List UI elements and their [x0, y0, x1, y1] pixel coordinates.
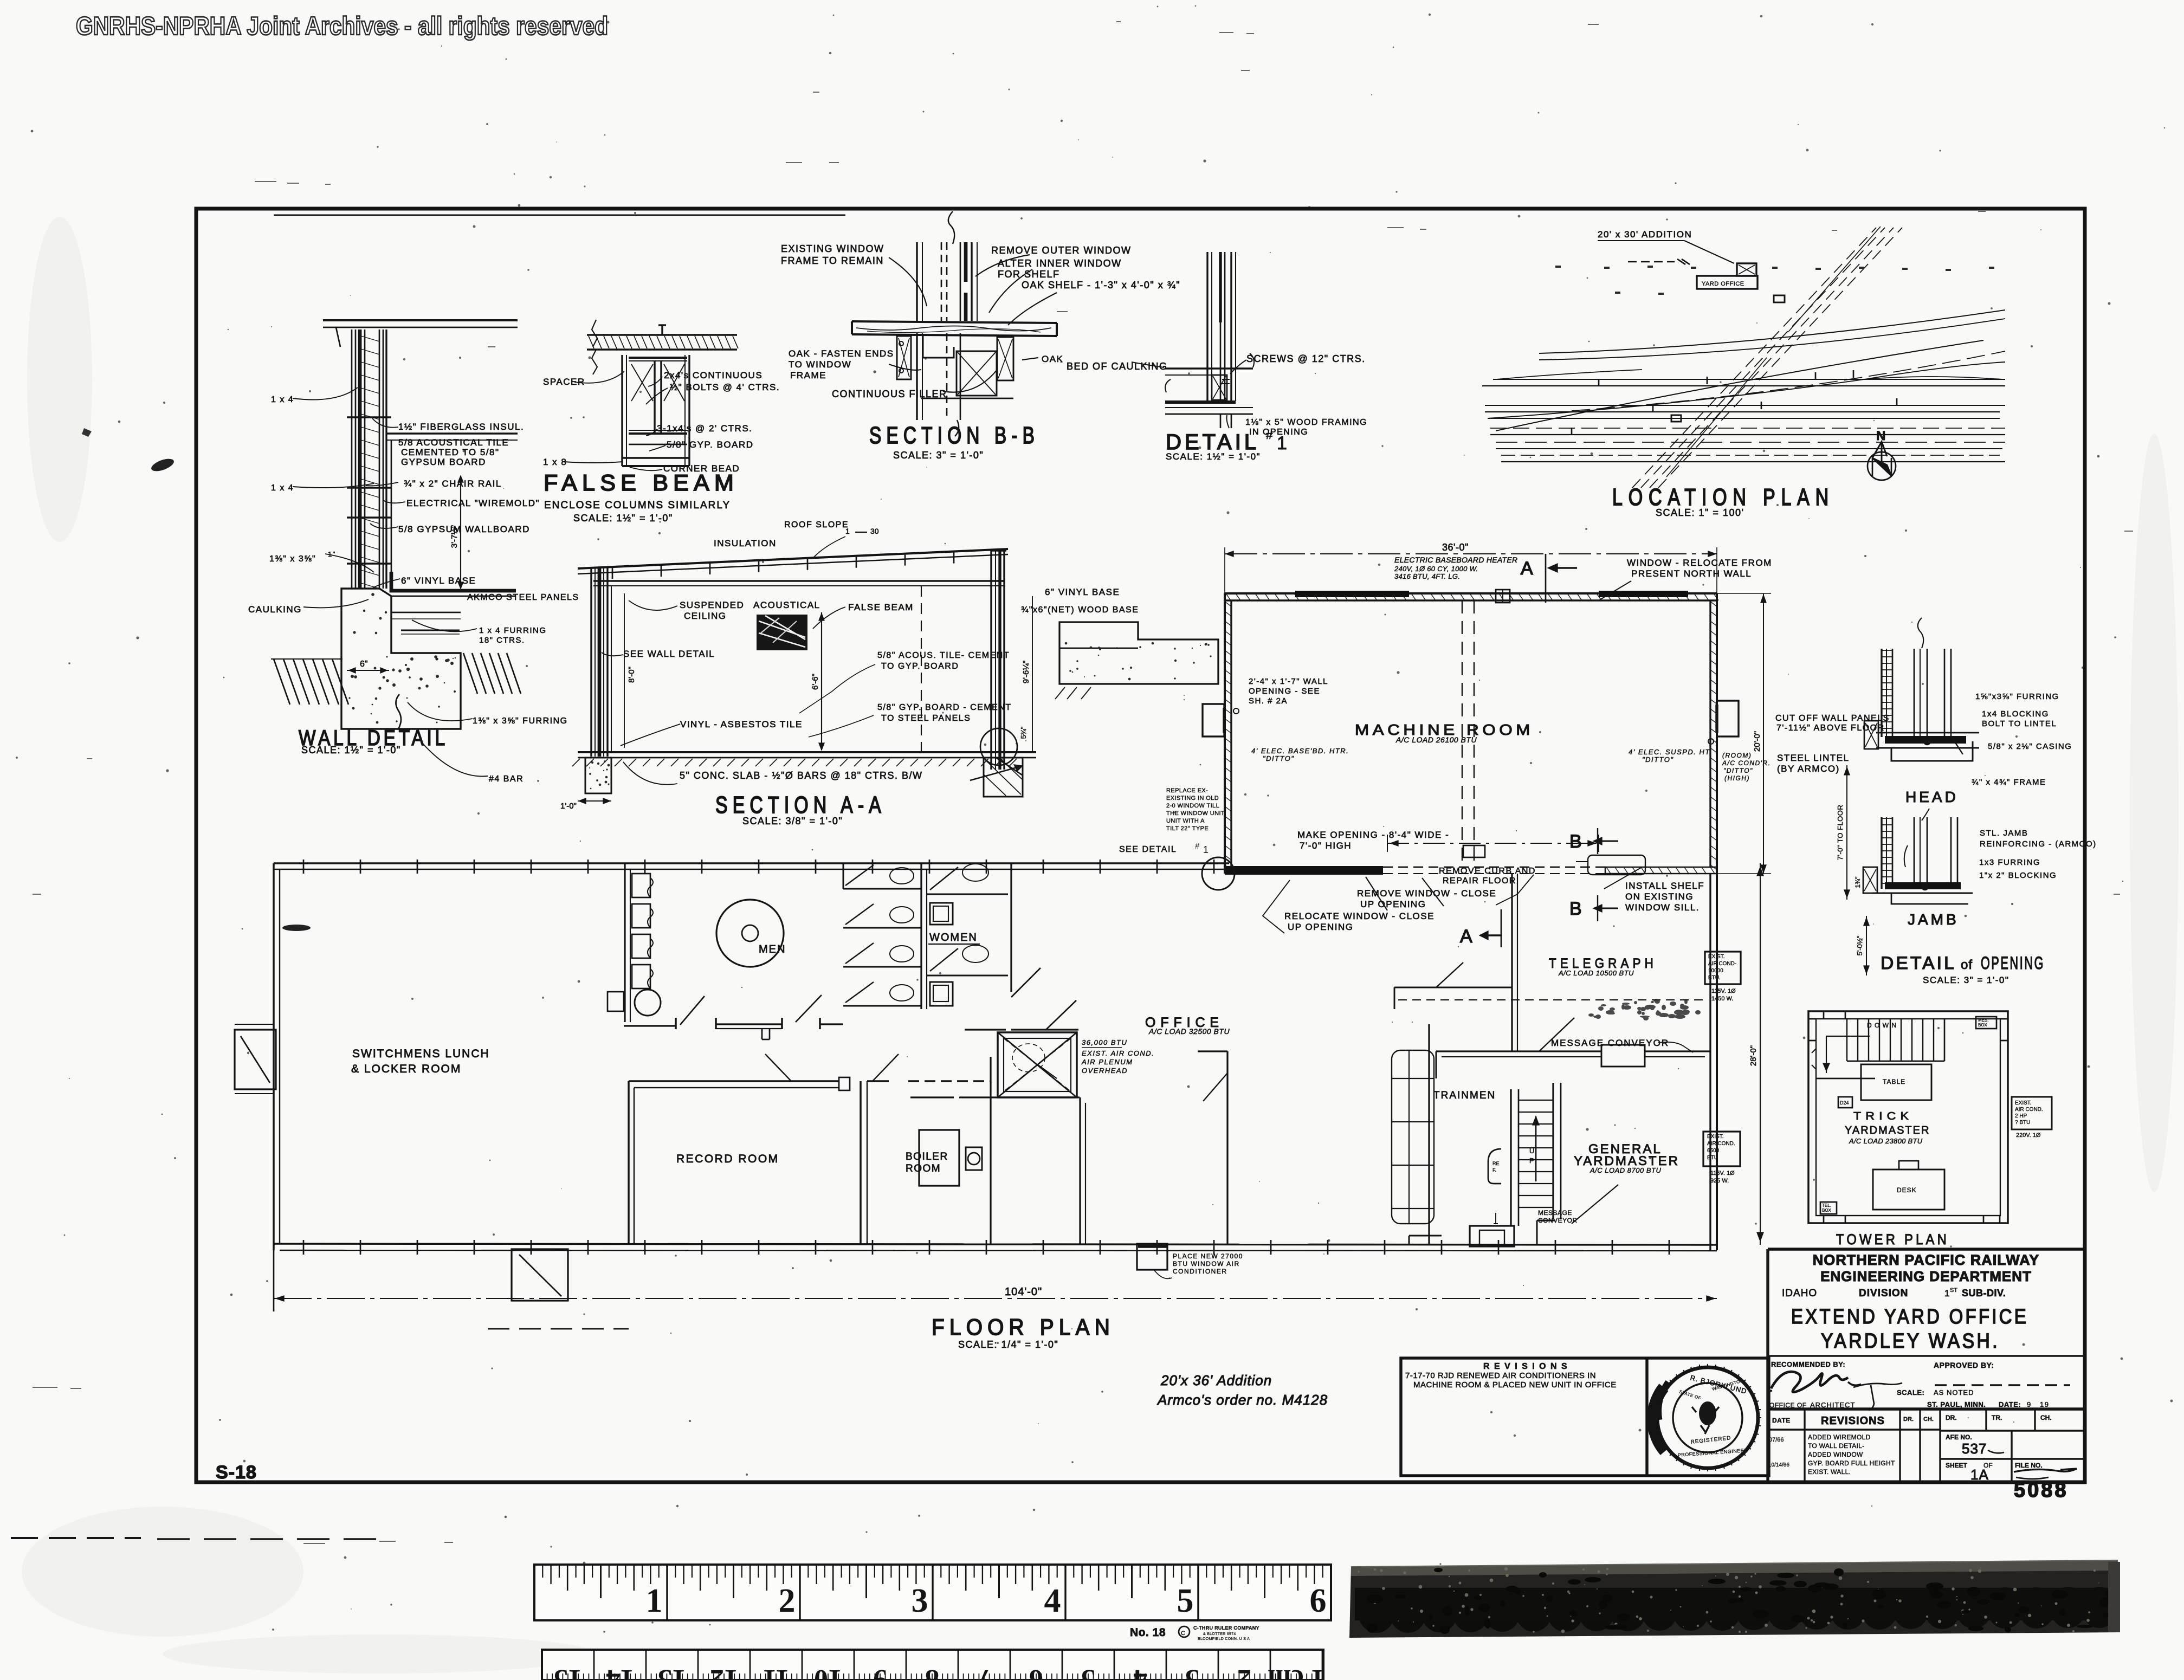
svg-text:MAKE OPENING - 8'-4" WIDE -: MAKE OPENING - 8'-4" WIDE -: [1297, 830, 1449, 840]
section B-B drawing: [852, 211, 1057, 436]
svg-text:1⅜" x 3⅝": 1⅜" x 3⅝": [269, 554, 316, 564]
svg-text:EXISTING WINDOW: EXISTING WINDOW: [781, 243, 884, 254]
svg-text:TR.: TR.: [1992, 1414, 2002, 1421]
svg-text:A/C LOAD 32500 BTU: A/C LOAD 32500 BTU: [1148, 1027, 1230, 1036]
svg-text:"DITTO": "DITTO": [1263, 754, 1295, 763]
svg-text:1⅝"x3⅝" FURRING: 1⅝"x3⅝" FURRING: [1975, 692, 2059, 701]
svg-text:A/C LOAD 8700 BTU: A/C LOAD 8700 BTU: [1589, 1166, 1661, 1174]
boiler room: [919, 1057, 991, 1244]
svg-text:(ROOM): (ROOM): [1722, 752, 1752, 759]
svg-text:5/8" x 2⅛" CASING: 5/8" x 2⅛" CASING: [1988, 742, 2072, 751]
engineer stamp: [1653, 1364, 1761, 1471]
svg-text:7-17-70 RJD RENEWED AIR CO: 7-17-70 RJD RENEWED AIR CONDITIONERS IN: [1405, 1371, 1596, 1380]
lockers row: [625, 863, 653, 1022]
svg-text:ARCHITECT: ARCHITECT: [1810, 1401, 1855, 1409]
svg-text:TO WALL DETAIL-: TO WALL DETAIL-: [1808, 1442, 1865, 1450]
svg-text:OVERHEAD: OVERHEAD: [1082, 1067, 1128, 1075]
svg-text:5/8" ACOUS. TILE- CEMENT: 5/8" ACOUS. TILE- CEMENT: [877, 651, 1010, 660]
svg-text:SWITCHMENS LUNCH: SWITCHMENS LUNCH: [352, 1048, 490, 1060]
svg-text:CH.: CH.: [2040, 1414, 2052, 1421]
svg-text:6'-6": 6'-6": [811, 674, 820, 690]
28-0 dimension: [1760, 863, 1761, 1245]
svg-text:19: 19: [2040, 1400, 2049, 1408]
svg-text:C-THRU RULER COMPANY: C-THRU RULER COMPANY: [1193, 1625, 1259, 1631]
message conveyor bottom box: [1409, 1185, 1618, 1246]
svg-text:AFE NO.: AFE NO.: [1946, 1433, 1972, 1441]
svg-text:BTU: BTU: [1707, 1155, 1718, 1161]
svg-text:4' ELEC. SUSPD. HT.: 4' ELEC. SUSPD. HT.: [1629, 748, 1713, 756]
svg-text:OAK: OAK: [1042, 354, 1063, 364]
svg-text:2 HP: 2 HP: [2015, 1113, 2027, 1119]
svg-text:9'-6¼": 9'-6¼": [1022, 661, 1031, 683]
svg-text:N: N: [1876, 429, 1885, 443]
svg-text:MACHINE ROOM & PLACED NEW: MACHINE ROOM & PLACED NEW UNIT IN OFFICE: [1413, 1380, 1617, 1390]
svg-text:Armco's order no. M4128: Armco's order no. M4128: [1156, 1392, 1328, 1408]
svg-text:¾"x6"(NET) WOOD BASE: ¾"x6"(NET) WOOD BASE: [1021, 605, 1139, 615]
svg-text:SCALE:: SCALE:: [1897, 1388, 1924, 1397]
svg-text:1x4 BLOCKING: 1x4 BLOCKING: [1982, 709, 2049, 719]
svg-text:F.: F.: [1492, 1167, 1496, 1173]
svg-text:FALSE BEAM: FALSE BEAM: [848, 602, 914, 612]
svg-text:FOR SHELF: FOR SHELF: [998, 269, 1060, 280]
svg-text:ALTER INNER WINDOW: ALTER INNER WINDOW: [998, 258, 1122, 269]
svg-text:2: 2: [779, 1582, 796, 1619]
svg-text:CAULKING: CAULKING: [248, 604, 302, 615]
svg-text:A/C LOAD 26100 BTU: A/C LOAD 26100 BTU: [1395, 735, 1477, 744]
svg-text:INSTALL SHELF: INSTALL SHELF: [1625, 881, 1704, 891]
location plan railway tracks: [1482, 227, 2005, 488]
svg-text:MEN: MEN: [759, 944, 786, 955]
svg-text:BTU WINDOW AIR: BTU WINDOW AIR: [1173, 1260, 1240, 1268]
svg-text:STEEL LINTEL: STEEL LINTEL: [1777, 753, 1850, 763]
svg-text:1: 1: [646, 1582, 663, 1619]
svg-text:DETAIL: DETAIL: [1881, 953, 1956, 973]
svg-text:AS NOTED: AS NOTED: [1934, 1388, 1974, 1397]
title block frame: [1768, 1249, 2085, 1482]
svg-text:D O W N: D O W N: [1867, 1022, 1897, 1029]
svg-text:2x4's CONTINUOUS: 2x4's CONTINUOUS: [664, 370, 763, 380]
svg-text:3416 BTU, 4FT. LG.: 3416 BTU, 4FT. LG.: [1394, 572, 1460, 580]
svg-text:REGISTERED: REGISTERED: [1690, 1435, 1731, 1445]
svg-text:OPENING - SEE: OPENING - SEE: [1249, 687, 1320, 696]
centimeter ruler upside down: [542, 1650, 1325, 1680]
floor plan building outline: [274, 860, 1717, 1311]
svg-text:REMOVE OUTER WINDOW: REMOVE OUTER WINDOW: [991, 245, 1132, 256]
svg-text:20'x 36' Addition: 20'x 36' Addition: [1160, 1372, 1272, 1388]
telegraph room: [1394, 874, 1710, 1078]
svg-text:SH. # 2A: SH. # 2A: [1249, 696, 1288, 706]
svg-text:CEILING: CEILING: [684, 611, 727, 621]
svg-text:P: P: [1529, 1156, 1534, 1165]
svg-text:TO GYP. BOARD: TO GYP. BOARD: [881, 662, 959, 671]
svg-text:REMOVE WINDOW - CLOSE: REMOVE WINDOW - CLOSE: [1357, 888, 1496, 899]
svg-text:DATE:: DATE:: [1999, 1400, 2021, 1408]
svg-text:D24: D24: [1840, 1100, 1849, 1106]
svg-text:B: B: [1569, 831, 1582, 852]
svg-text:ADDED WIREMOLD: ADDED WIREMOLD: [1808, 1433, 1871, 1441]
tower exist air cond box: [2012, 1097, 2052, 1129]
svg-text:1"x 2" BLOCKING: 1"x 2" BLOCKING: [1979, 871, 2057, 880]
svg-text:A/C LOAD 23800 BTU: A/C LOAD 23800 BTU: [1849, 1137, 1923, 1145]
svg-text:VINYL - ASBESTOS TILE: VINYL - ASBESTOS TILE: [680, 719, 803, 729]
svg-text:UP OPENING: UP OPENING: [1288, 922, 1353, 932]
inch ruler: [534, 1565, 1331, 1620]
svg-text:CH.: CH.: [1923, 1416, 1934, 1423]
svg-text:S-18: S-18: [216, 1462, 257, 1483]
svg-text:SHEET: SHEET: [1946, 1462, 1968, 1469]
svg-text:BOX: BOX: [1978, 1023, 1988, 1028]
svg-text:5/8" GYP. BOARD: 5/8" GYP. BOARD: [667, 440, 754, 450]
svg-text:YARDMASTER: YARDMASTER: [1845, 1125, 1930, 1136]
svg-text:HEAD: HEAD: [1905, 789, 1959, 805]
svg-text:104'-0": 104'-0": [1005, 1286, 1042, 1298]
svg-text:2-0 WINDOW TILL: 2-0 WINDOW TILL: [1166, 803, 1219, 809]
svg-text:SCALE: 1½" = 1'-0": SCALE: 1½" = 1'-0": [573, 513, 673, 524]
svg-text:TRICK: TRICK: [1853, 1110, 1913, 1122]
location plan small buildings: [1774, 295, 1785, 302]
svg-text:1: 1: [845, 527, 850, 535]
svg-text:CONDITIONER: CONDITIONER: [1173, 1268, 1227, 1275]
svg-text:"DITTO": "DITTO": [1723, 767, 1753, 774]
svg-text:EXTEND YARD OFFICE: EXTEND YARD OFFICE: [1791, 1306, 2028, 1328]
svg-text:DR.: DR.: [1946, 1414, 1957, 1421]
svg-text:SECTION B-B: SECTION B-B: [869, 422, 1039, 449]
svg-text:SPACER: SPACER: [543, 377, 585, 387]
svg-text:3-1x4's @ 2' CTRS.: 3-1x4's @ 2' CTRS.: [657, 423, 752, 434]
svg-text:RECOMMENDED BY:: RECOMMENDED BY:: [1771, 1360, 1845, 1368]
svg-text:REPLACE EX-: REPLACE EX-: [1166, 787, 1208, 794]
head detail drawing: [1864, 618, 1979, 761]
svg-text:BTU.: BTU.: [1708, 975, 1721, 981]
jamb detail drawing: [1863, 817, 1973, 904]
svg-text:REMOVE CURB AND: REMOVE CURB AND: [1439, 867, 1536, 876]
svg-text:AIR COND.: AIR COND.: [1707, 1141, 1735, 1147]
svg-text:PRESENT NORTH WALL: PRESENT NORTH WALL: [1631, 568, 1752, 579]
sheet border frame: [196, 209, 2085, 1482]
tower desk: [1873, 1161, 1944, 1210]
svg-text:1": 1": [328, 550, 336, 558]
svg-text:SCALE: 3" = 1'-0": SCALE: 3" = 1'-0": [893, 450, 984, 461]
revision table: [1768, 1409, 2085, 1482]
svg-text:1 x 4 FURRING: 1 x 4 FURRING: [479, 626, 547, 635]
svg-text:5¾": 5¾": [1019, 726, 1028, 739]
svg-text:6": 6": [360, 660, 368, 669]
svg-text:ENCLOSE COLUMNS SIMILARLY: ENCLOSE COLUMNS SIMILARLY: [544, 500, 731, 511]
svg-text:#: #: [1266, 428, 1273, 442]
svg-text:U: U: [1529, 1147, 1534, 1155]
svg-text:WOMEN: WOMEN: [929, 932, 978, 944]
svg-text:BOX: BOX: [1822, 1208, 1832, 1213]
mens toilet stalls: [796, 863, 927, 1029]
svg-text:RECORD ROOM: RECORD ROOM: [676, 1153, 779, 1165]
svg-text:INSULATION: INSULATION: [714, 538, 777, 548]
trainmen room: [1198, 1050, 1434, 1245]
svg-text:5/8 ACOUSTICAL TILE: 5/8 ACOUSTICAL TILE: [398, 437, 509, 448]
svg-text:THE WINDOW UNIT: THE WINDOW UNIT: [1166, 810, 1225, 817]
svg-text:¾" x 2" CHAIR RAIL: ¾" x 2" CHAIR RAIL: [404, 479, 502, 489]
svg-text:DETAIL: DETAIL: [1166, 430, 1259, 454]
svg-text:REINFORCING - (ARMCO): REINFORCING - (ARMCO): [1980, 839, 2097, 849]
svg-text:5: 5: [1177, 1582, 1194, 1619]
svg-text:DR.: DR.: [1903, 1416, 1914, 1423]
dashes under border bottom left: [11, 1537, 141, 1539]
svg-text:OPENING: OPENING: [1981, 953, 2045, 973]
doubled top border line: [274, 215, 845, 216]
svg-text:SEE DETAIL: SEE DETAIL: [1119, 845, 1177, 854]
svg-text:EXIST.: EXIST.: [2015, 1100, 2032, 1106]
svg-text:1 x 4: 1 x 4: [271, 395, 294, 404]
bottom chimney: [512, 1249, 568, 1301]
svg-text:FRAME TO REMAIN: FRAME TO REMAIN: [781, 255, 884, 266]
svg-text:ST. PAUL, MINN.: ST. PAUL, MINN.: [1927, 1400, 1986, 1408]
svg-text:RE: RE: [1492, 1161, 1500, 1166]
svg-text:10/14/66: 10/14/66: [1768, 1462, 1789, 1468]
svg-text:36,000 BTU: 36,000 BTU: [1082, 1038, 1127, 1046]
svg-text:(BY ARMCO): (BY ARMCO): [1777, 764, 1840, 774]
left porch: [235, 1030, 276, 1089]
svg-text:SCALE: 3/8" = 1'-0": SCALE: 3/8" = 1'-0": [742, 816, 843, 826]
svg-text:A: A: [1521, 558, 1533, 579]
svg-text:SUB-DIV.: SUB-DIV.: [1962, 1288, 2006, 1298]
stray ink blobs left margin: [150, 456, 176, 474]
trainmen dividing wall: [1428, 1024, 1430, 1245]
detail 1 drawing: [1132, 252, 1254, 428]
svg-text:1'-0": 1'-0": [560, 802, 577, 811]
svg-text:¾" x 4¾" FRAME: ¾" x 4¾" FRAME: [1972, 778, 2046, 787]
tower plan walls: [1808, 1011, 2008, 1223]
section A-A drawing: [572, 549, 1036, 797]
svg-text:5'-0½": 5'-0½": [1856, 935, 1864, 955]
location plan scattered dots: [1555, 266, 1994, 295]
svg-text:GYPSUM BOARD: GYPSUM BOARD: [401, 457, 486, 467]
svg-text:TILT 22° TYPE: TILT 22° TYPE: [1166, 825, 1209, 832]
svg-text:1: 1: [1277, 433, 1287, 454]
svg-text:ELECTRIC BASEBOARD HEATER: ELECTRIC BASEBOARD HEATER: [1394, 555, 1517, 564]
svg-text:R E V I S I O N S: R E V I S I O N S: [1483, 1362, 1568, 1371]
svg-text:ADDED WINDOW: ADDED WINDOW: [1808, 1451, 1863, 1458]
svg-text:2'-4" x 1'-7" WALL: 2'-4" x 1'-7" WALL: [1249, 677, 1328, 686]
svg-text:PLACE NEW 27000: PLACE NEW 27000: [1173, 1252, 1243, 1260]
svg-text:½" BOLTS @ 4' CTRS.: ½" BOLTS @ 4' CTRS.: [670, 382, 780, 392]
svg-text:6" VINYL BASE: 6" VINYL BASE: [401, 576, 476, 586]
svg-text:AIR COND.: AIR COND.: [2015, 1107, 2043, 1113]
svg-text:1x3 FURRING: 1x3 FURRING: [1979, 858, 2040, 867]
svg-text:925 W.: 925 W.: [1710, 1178, 1729, 1184]
svg-text:DESK: DESK: [1897, 1186, 1917, 1194]
svg-text:1 x 8: 1 x 8: [543, 457, 567, 467]
svg-text:20' x 30' ADDITION: 20' x 30' ADDITION: [1598, 229, 1692, 240]
svg-text:& BLOTTER 6974: & BLOTTER 6974: [1203, 1632, 1236, 1636]
svg-text:5/8" GYP. BOARD - CEMENT: 5/8" GYP. BOARD - CEMENT: [877, 703, 1012, 712]
svg-text:1¾": 1¾": [1854, 877, 1862, 888]
svg-text:SCALE: 1" = 100': SCALE: 1" = 100': [1656, 507, 1744, 518]
svg-text:TRAINMEN: TRAINMEN: [1433, 1090, 1496, 1101]
dashed line above message conveyor: [1398, 999, 1707, 1000]
svg-text:18" CTRS.: 18" CTRS.: [479, 636, 525, 645]
svg-text:SUSPENDED: SUSPENDED: [680, 600, 744, 610]
svg-text:FRAME: FRAME: [790, 370, 826, 380]
svg-text:FALSE BEAM: FALSE BEAM: [544, 470, 739, 495]
svg-text:A: A: [1460, 926, 1472, 947]
svg-text:4' ELEC. BASE'BD. HTR.: 4' ELEC. BASE'BD. HTR.: [1251, 747, 1349, 755]
svg-text:30: 30: [870, 527, 879, 535]
svg-text:YARDLEY WASH.: YARDLEY WASH.: [1821, 1330, 2000, 1353]
svg-text:ST: ST: [1950, 1287, 1957, 1294]
machine room walls: [1202, 547, 1771, 947]
svg-text:LOCATION PLAN: LOCATION PLAN: [1612, 484, 1834, 511]
svg-text:DIVISION: DIVISION: [1859, 1288, 1908, 1299]
svg-text:7'-0" HIGH: 7'-0" HIGH: [1300, 841, 1352, 851]
signature scribble: [1771, 1372, 1848, 1392]
svg-text:SCALE: 1/4" = 1'-0": SCALE: 1/4" = 1'-0": [958, 1339, 1058, 1350]
long dimension 104'-0": [274, 1298, 1717, 1299]
svg-text:220V. 1Ø: 220V. 1Ø: [2016, 1132, 2041, 1139]
svg-text:5088: 5088: [2014, 1479, 2069, 1502]
window air conditioner at south wall: [1137, 1244, 1167, 1270]
svg-text:1⅜" x 3⅝" FURRING: 1⅜" x 3⅝" FURRING: [473, 716, 568, 726]
svg-text:5" CONC. SLAB - ½"Ø BARS @ 1: 5" CONC. SLAB - ½"Ø BARS @ 18" CTRS. B/W: [680, 770, 923, 781]
svg-text:EXISTING IN OLD: EXISTING IN OLD: [1166, 795, 1219, 802]
svg-text:10000: 10000: [1708, 968, 1723, 974]
svg-text:1½" FIBERGLASS INSUL.: 1½" FIBERGLASS INSUL.: [398, 422, 524, 432]
wall detail drawing: [271, 320, 521, 777]
svg-text:? BTU: ? BTU: [2015, 1120, 2030, 1126]
7-0 to floor dim: [1846, 765, 1847, 900]
svg-text:8'-0": 8'-0": [627, 667, 636, 683]
svg-text:1⅛" x 5" WOOD FRAMING: 1⅛" x 5" WOOD FRAMING: [1245, 418, 1367, 427]
svg-text:A/C LOAD 10500 BTU: A/C LOAD 10500 BTU: [1558, 969, 1634, 977]
svg-text:No. 18: No. 18: [1130, 1626, 1166, 1639]
svg-text:C: C: [1181, 1630, 1185, 1637]
svg-text:115V. 1Ø: 115V. 1Ø: [1711, 988, 1736, 994]
svg-text:JAMB: JAMB: [1908, 911, 1959, 928]
svg-text:of: of: [1961, 958, 1973, 972]
svg-text:GYP. BOARD FULL HEIGHT: GYP. BOARD FULL HEIGHT: [1808, 1459, 1895, 1467]
svg-text:537: 537: [1962, 1440, 1987, 1457]
svg-text:OAK - FASTEN ENDS: OAK - FASTEN ENDS: [789, 348, 894, 359]
svg-text:1: 1: [1944, 1288, 1949, 1298]
svg-text:DATE: DATE: [1772, 1417, 1791, 1424]
svg-text:9: 9: [2027, 1400, 2032, 1408]
svg-text:NORTHERN PACIFIC RAILWAY: NORTHERN PACIFIC RAILWAY: [1813, 1252, 2040, 1268]
office-boiler dividing wall: [1079, 1097, 1081, 1244]
svg-text:SEE WALL DETAIL: SEE WALL DETAIL: [623, 649, 715, 659]
svg-text:FILE NO.: FILE NO.: [2015, 1462, 2043, 1469]
revisions note box: [1401, 1358, 1769, 1476]
svg-text:CUT OFF WALL PANELS: CUT OFF WALL PANELS: [1775, 714, 1890, 723]
svg-text:TO STEEL PANELS: TO STEEL PANELS: [881, 714, 971, 723]
svg-text:07/66: 07/66: [1769, 1437, 1784, 1443]
svg-text:APPROVED BY:: APPROVED BY:: [1934, 1361, 1994, 1369]
svg-text:FLOOR PLAN: FLOOR PLAN: [932, 1314, 1115, 1340]
svg-text:WINDOW - RELOCATE FROM: WINDOW - RELOCATE FROM: [1627, 558, 1772, 568]
svg-text:ENGINEERING DEPARTMENT: ENGINEERING DEPARTMENT: [1820, 1268, 2032, 1284]
svg-text:1: 1: [1203, 844, 1209, 855]
svg-text:20'-0": 20'-0": [1753, 731, 1762, 752]
svg-text:BOILER: BOILER: [906, 1151, 948, 1162]
tower table: [1861, 1064, 1931, 1100]
svg-text:EXIST. AIR COND.: EXIST. AIR COND.: [1082, 1049, 1154, 1057]
svg-text:#4 BAR: #4 BAR: [489, 774, 524, 784]
svg-text:ACOUSTICAL: ACOUSTICAL: [753, 600, 820, 610]
acoustic tile dark patch: [757, 615, 807, 650]
svg-text:MESSAGE CONVEYOR: MESSAGE CONVEYOR: [1551, 1038, 1669, 1048]
svg-text:(HIGH): (HIGH): [1724, 774, 1750, 782]
svg-text:TABLE: TABLE: [1883, 1078, 1905, 1085]
svg-text:AKMCO STEEL PANELS: AKMCO STEEL PANELS: [467, 593, 579, 602]
svg-text:STL. JAMB: STL. JAMB: [1980, 829, 2028, 838]
svg-text:28'-0": 28'-0": [1749, 1045, 1758, 1066]
svg-text:TO WINDOW: TO WINDOW: [789, 359, 851, 370]
svg-text:CEMENTED TO 5/8": CEMENTED TO 5/8": [401, 447, 500, 457]
svg-text:5/8 GYPSUM WALLBOARD: 5/8 GYPSUM WALLBOARD: [398, 524, 530, 534]
svg-text:1450 W.: 1450 W.: [1711, 996, 1733, 1002]
svg-text:& LOCKER ROOM: & LOCKER ROOM: [351, 1063, 461, 1075]
womens room: [927, 863, 1078, 1030]
svg-text:36'-0": 36'-0": [1442, 542, 1469, 553]
record room: [629, 1054, 991, 1244]
svg-text:ROOF SLOPE: ROOF SLOPE: [784, 520, 849, 529]
svg-text:3: 3: [912, 1582, 928, 1619]
svg-text:SCALE: 3" = 1'-0": SCALE: 3" = 1'-0": [1923, 975, 2009, 985]
svg-text:AIR COND-: AIR COND-: [1708, 961, 1736, 967]
svg-text:EXIST.: EXIST.: [1707, 1134, 1724, 1140]
svg-text:TEL.: TEL.: [1822, 1203, 1831, 1208]
svg-text:BLOOMFIELD CONN. U S A: BLOOMFIELD CONN. U S A: [1198, 1637, 1250, 1641]
svg-text:ELECTRICAL "WIREMOLD": ELECTRICAL "WIREMOLD": [406, 498, 540, 508]
svg-text:ROOM: ROOM: [906, 1163, 941, 1174]
svg-text:B: B: [1569, 899, 1582, 919]
svg-text:UNIT WITH A: UNIT WITH A: [1166, 818, 1205, 824]
svg-text:"DITTO": "DITTO": [1642, 755, 1674, 764]
tower stairs: [1816, 1019, 1944, 1078]
svg-text:UP OPENING: UP OPENING: [1360, 899, 1426, 909]
svg-text:4: 4: [1044, 1582, 1061, 1619]
false beam detail drawing: [564, 320, 738, 470]
svg-text:OFFICE OF: OFFICE OF: [1769, 1401, 1807, 1409]
svg-text:6: 6: [1310, 1582, 1327, 1619]
svg-text:SCALE: 1½" = 1'-0": SCALE: 1½" = 1'-0": [1166, 451, 1261, 462]
svg-text:7'-0" TO FLOOR: 7'-0" TO FLOOR: [1836, 805, 1844, 860]
svg-text:EXIST.: EXIST.: [1708, 954, 1725, 960]
svg-text:CONVEYOR: CONVEYOR: [1538, 1217, 1578, 1224]
svg-text:MESSAGE: MESSAGE: [1538, 1209, 1572, 1217]
svg-text:CONTINUOUS FILLER: CONTINUOUS FILLER: [832, 389, 947, 399]
svg-text:REPAIR FLOOR: REPAIR FLOOR: [1443, 876, 1516, 886]
svg-text:6" VINYL BASE: 6" VINYL BASE: [1045, 587, 1120, 597]
svg-text:RELOCATE WINDOW - CLOSE: RELOCATE WINDOW - CLOSE: [1284, 911, 1435, 921]
svg-text:1A: 1A: [1970, 1466, 1989, 1483]
stairs: [1488, 1083, 1561, 1226]
svg-text:240V, 1Ø 60 CY, 1000 W.: 240V, 1Ø 60 CY, 1000 W.: [1394, 565, 1478, 573]
dark film strip bottom right: [1349, 1560, 2120, 1638]
svg-text:WINDOW SILL.: WINDOW SILL.: [1625, 902, 1700, 913]
svg-text:SCALE: 1½" = 1'-0": SCALE: 1½" = 1'-0": [301, 745, 401, 755]
svg-text:ON EXISTING: ON EXISTING: [1625, 891, 1694, 902]
svg-text:REVISIONS: REVISIONS: [1821, 1415, 1885, 1427]
svg-text:MES.: MES.: [1978, 1018, 1989, 1023]
location plan yard office block: [1697, 276, 1757, 289]
mens room fixtures: [608, 900, 784, 1039]
svg-text:YARD OFFICE: YARD OFFICE: [1702, 281, 1744, 287]
svg-text:BED OF CAULKING: BED OF CAULKING: [1067, 361, 1168, 372]
svg-text:TOWER PLAN: TOWER PLAN: [1836, 1231, 1949, 1248]
svg-text:IDAHO: IDAHO: [1782, 1288, 1817, 1299]
svg-text:GNRHS-NPRHA Joint Archives - a: GNRHS-NPRHA Joint Archives - all rights …: [76, 11, 608, 40]
svg-text:1 x 4: 1 x 4: [271, 483, 294, 493]
svg-text:BOLT TO LINTEL: BOLT TO LINTEL: [1982, 719, 2057, 728]
svg-text:#: #: [1195, 842, 1200, 851]
